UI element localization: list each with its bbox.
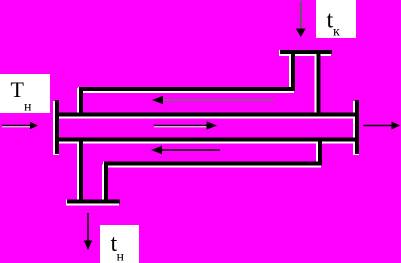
label box t_k (cold inlet temperature) xyxy=(316,0,356,38)
bottom outlet flange xyxy=(67,200,120,204)
shell top wall xyxy=(79,87,295,91)
hot inlet arrow (left, into tube) xyxy=(2,122,38,129)
shell left end wall xyxy=(79,87,83,117)
cold outlet flow arrow (down, from bottom nozzle) xyxy=(84,213,92,250)
right tube flange xyxy=(355,100,359,154)
svg-text:н: н xyxy=(117,250,125,263)
shell bottom right end stub xyxy=(318,140,322,164)
svg-text:к: к xyxy=(333,25,340,40)
label text t_n xyxy=(111,231,125,263)
bottom nozzle right wall xyxy=(104,164,108,202)
label box t_n (cold outlet temperature) xyxy=(100,225,139,263)
top nozzle left wall xyxy=(291,52,295,90)
inlet flow arrow (down, into top nozzle) xyxy=(296,2,306,38)
hot outlet arrow (right, out of tube) xyxy=(363,121,400,129)
svg-text:T: T xyxy=(11,77,25,102)
inner tube bottom wall xyxy=(57,138,357,142)
label box T_n (hot inlet temperature) xyxy=(0,74,50,113)
white halo fringes under black pipework lines xyxy=(56,53,356,205)
tube flow arrow (rightwards) xyxy=(154,121,217,129)
annulus top flow arrow (leftwards) xyxy=(152,96,274,104)
top nozzle right wall xyxy=(317,52,321,117)
top inlet flange xyxy=(280,50,332,54)
inner tube top wall xyxy=(57,113,357,117)
left tube flange xyxy=(55,100,59,154)
annulus bottom flow arrow (leftwards) xyxy=(151,146,220,154)
shell bottom wall xyxy=(104,162,322,166)
label text t_k xyxy=(327,8,341,40)
svg-text:н: н xyxy=(24,100,32,115)
bottom nozzle left wall xyxy=(79,140,83,204)
label text T_n xyxy=(11,77,33,115)
